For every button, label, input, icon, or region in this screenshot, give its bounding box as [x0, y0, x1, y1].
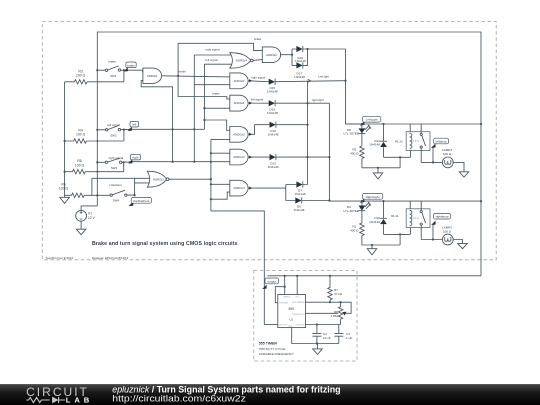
- junction dots left block: [361, 123, 482, 169]
- ground (left LED branch): [373, 168, 383, 179]
- svg-text:1 MΩ: 1 MΩ: [330, 314, 338, 318]
- svg-text:1N4148: 1N4148: [295, 192, 306, 196]
- wire: ANDGx2 out row through D13: [249, 156, 330, 158]
- svg-text:SW3: SW3: [111, 166, 118, 170]
- svg-text:DISCHARGE: DISCHARGE: [292, 301, 305, 304]
- svg-text:R3: R3: [78, 69, 82, 73]
- wire: NORGt3 input loop and feed: [92, 178, 149, 183]
- svg-text:left signal: left signal: [206, 58, 219, 62]
- flag arrow: Left light: [308, 79, 311, 82]
- svg-text:%50 DUTY CYCLE: %50 DUTY CYCLE: [259, 347, 286, 351]
- AND gate ANDGt4: [230, 95, 248, 111]
- svg-text:LAB: LAB: [66, 396, 90, 405]
- svg-text:left signal: left signal: [251, 97, 264, 101]
- resistor R3: [65, 69, 124, 84]
- svg-text:NORGt4: NORGt4: [236, 59, 247, 63]
- NOR gate NORGt3: [147, 171, 169, 187]
- svg-text:rightlamp: rightlamp: [436, 215, 449, 219]
- ground (555): [313, 344, 323, 355]
- resistor R1 400: [350, 223, 364, 245]
- wire: 12V rail into timer: [268, 275, 482, 277]
- svg-text:400 Ω: 400 Ω: [350, 228, 359, 232]
- svg-text:GND: GND: [288, 326, 293, 328]
- wire: chip top feeds RESET and VCC: [285, 276, 298, 295]
- wire: left-light collector bus x345.5: [346, 49, 362, 124]
- dashed box 555: [254, 270, 357, 361]
- flag: right: [128, 154, 140, 163]
- AND gate ANDGt2: [262, 47, 280, 63]
- svg-text:RightLight: RightLight: [366, 195, 380, 199]
- svg-text:OUTPUT: OUTPUT: [279, 324, 288, 326]
- flag: RightLight: [360, 193, 383, 202]
- svg-text:Brake and turn signal system u: Brake and turn signal system using CMOS …: [92, 241, 238, 247]
- wire: NORGt4 output to ANDGt2 in2: [253, 59, 262, 62]
- potentiometer R9 1M: [330, 302, 346, 324]
- svg-text:Left light: Left light: [318, 75, 329, 79]
- svg-text:1N4148: 1N4148: [267, 90, 278, 94]
- relay RL12: [395, 124, 430, 162]
- ground (LAMP3): [459, 172, 469, 177]
- wire: trigger loop: [275, 287, 284, 303]
- svg-text:right signal: right signal: [251, 75, 265, 79]
- voltage source V1 12V: [76, 206, 98, 229]
- wire: ANDGx3 in1: [211, 183, 230, 185]
- svg-text:VCC: VCC: [295, 296, 300, 298]
- wire: ANDGt4 in2 from left bus: [204, 107, 229, 109]
- wire: threshold row: [306, 312, 339, 314]
- svg-text:brake: brake: [212, 92, 220, 96]
- diode D6: [293, 197, 304, 212]
- wire: discharge row + wiper loop: [306, 302, 352, 313]
- diode D15: [267, 79, 278, 94]
- svg-text:Designer: EPluznick 8/13/13: Designer: EPluznick 8/13/13: [92, 256, 129, 260]
- svg-text:U1: U1: [289, 318, 293, 322]
- wire: ANDGt3 out row through D15 (Left light): [249, 81, 346, 82]
- wire: ANDGt1 output row to ANDGt3 in1: [162, 76, 230, 77]
- svg-text:TRIGGER: TRIGGER: [279, 303, 289, 305]
- wire: brake bus (ANDGt1 output net): [178, 43, 230, 99]
- svg-text:1N4148: 1N4148: [369, 143, 380, 147]
- capacitor C1 1uF: [334, 325, 352, 344]
- svg-text:right signal: right signal: [206, 48, 220, 52]
- svg-text:NORGt3: NORGt3: [153, 177, 164, 181]
- diode D19: [267, 100, 278, 115]
- capacitor C2 10nF: [312, 325, 331, 344]
- AND gate ANDGx2: [230, 149, 248, 165]
- junction dots right-middle: [291, 48, 347, 202]
- switch SW4 (x flashers): [109, 183, 135, 203]
- diode D7: [295, 181, 306, 196]
- wire: right block bottom rails: [362, 228, 411, 246]
- svg-text:SW2: SW2: [110, 133, 117, 137]
- resistor R6: [59, 178, 110, 197]
- svg-text:R6: R6: [61, 182, 65, 186]
- LED D9 LTL-307EE: [343, 201, 371, 223]
- svg-text:VARIABLE FREQUENCY: VARIABLE FREQUENCY: [259, 352, 294, 356]
- svg-text:100 Ω: 100 Ω: [76, 133, 86, 137]
- flag: theFlashers: [129, 197, 152, 206]
- NOR gate NORGt4: [230, 53, 253, 69]
- wire: left-signal bus x204.4: [203, 64, 205, 129]
- flag: brake: [124, 62, 137, 72]
- svg-text:ANDGx2: ANDGx2: [233, 132, 245, 136]
- svg-text:RL11: RL11: [391, 214, 398, 218]
- svg-text:right light: right light: [312, 98, 324, 102]
- svg-text:brake: brake: [127, 63, 135, 67]
- svg-text:brake: brake: [254, 37, 262, 41]
- svg-text:400 Ω: 400 Ω: [350, 151, 359, 155]
- svg-text:CONTROL: CONTROL: [294, 324, 305, 326]
- wire: ANDGt4 out row through D19 (right light): [249, 102, 330, 104]
- svg-text:ANDGt4: ANDGt4: [234, 101, 245, 105]
- wire: ANDGx1 in2: [211, 138, 230, 140]
- svg-text:x flashers: x flashers: [109, 183, 122, 187]
- svg-text:1N4148: 1N4148: [267, 111, 278, 115]
- wire: ANDGx3 out split to D7/D6: [249, 185, 330, 201]
- svg-text:100 Ω: 100 Ω: [76, 74, 86, 78]
- diode D13: [268, 154, 279, 169]
- wire: ANDGx2 in1: [211, 152, 230, 154]
- wire: ANDGt1 in2 loop to bus x172.6: [141, 81, 172, 162]
- wire: NORGt4 in1: [194, 54, 231, 56]
- svg-text:ANDGt2: ANDGt2: [266, 53, 277, 57]
- svg-text:RL12: RL12: [395, 139, 403, 143]
- svg-text:THRESHOLD: THRESHOLD: [292, 314, 305, 316]
- outer dashed schematic border: [42, 22, 496, 260]
- diode D17: [294, 62, 305, 79]
- diode D14: [369, 124, 387, 157]
- wire: ANDGx1 in1 jog from left bus: [204, 120, 229, 131]
- diode row helpers: ANDGt2 output split: [280, 49, 345, 65]
- svg-text:555: 555: [289, 307, 295, 311]
- svg-text:brake: brake: [179, 69, 187, 73]
- svg-text:SW1: SW1: [110, 74, 117, 78]
- wire: bottom gnd rail 555: [292, 328, 339, 344]
- switch SW2 (left signal): [97, 123, 204, 141]
- flag: output: [262, 278, 278, 289]
- diode D16: [295, 46, 306, 63]
- svg-text:SW4: SW4: [113, 199, 120, 203]
- resistor R7 47k: [328, 276, 343, 302]
- wire: 12V feed row left block: [346, 123, 482, 125]
- diode D10: [369, 201, 387, 234]
- svg-text:left signal: left signal: [107, 123, 120, 127]
- svg-text:1N4148: 1N4148: [294, 75, 305, 79]
- svg-text:1N4148: 1N4148: [268, 133, 279, 137]
- wire: ANDGt3 in2: [194, 84, 230, 86]
- svg-text:R5: R5: [77, 159, 81, 163]
- switch SW3 (right signal): [97, 156, 230, 172]
- svg-text:100 Ω: 100 Ω: [59, 187, 69, 191]
- svg-text:1N4148: 1N4148: [369, 220, 380, 224]
- wire: right-light collector bus x329.4: [329, 103, 362, 201]
- junction dots right block: [361, 200, 482, 246]
- svg-text:Sumthin from E:2013: Sumthin from E:2013: [46, 256, 74, 260]
- 555 chip U1: [278, 295, 306, 329]
- junction dots 555: [284, 275, 342, 345]
- wire: brake-light bus x307.5: [307, 81, 309, 185]
- wire: right-signal bus x194.3: [193, 55, 195, 162]
- svg-text:theFlashers: theFlashers: [133, 199, 150, 203]
- switch SW1 (brake): [97, 60, 142, 82]
- svg-text:100 Ω: 100 Ω: [443, 152, 452, 156]
- resistor R2 400: [350, 146, 364, 168]
- flag: rightlamp: [431, 213, 451, 239]
- svg-text:http://circuitlab.com/c6xuw2z: http://circuitlab.com/c6xuw2z: [112, 393, 246, 403]
- lamp LAMP3: [421, 148, 464, 172]
- svg-text:ANDGx2: ANDGx2: [233, 155, 245, 159]
- AND gate ANDGx3: [230, 180, 248, 196]
- resistor R4: [65, 128, 124, 143]
- svg-text:100 Ω: 100 Ω: [443, 229, 452, 233]
- flag: leftlamp: [431, 138, 449, 162]
- svg-text:V1: V1: [88, 211, 92, 215]
- wire: ANDGx3 in2 loop: [211, 192, 230, 199]
- svg-text:555 TIMER: 555 TIMER: [259, 342, 278, 346]
- svg-text:ANDGx3: ANDGx3: [233, 186, 245, 190]
- svg-text:LeftLight: LeftLight: [366, 118, 378, 122]
- ground (left rail): [60, 197, 70, 203]
- wire: top detour brake to ANDGt2 in1: [178, 43, 262, 50]
- svg-text:47 kΩ: 47 kΩ: [334, 292, 343, 296]
- wire: clock bus to 555 output flag: [211, 211, 264, 325]
- wire: clock bus x210.9: [210, 139, 212, 211]
- flag: LeftLight: [360, 116, 381, 125]
- ground (below V1): [76, 229, 86, 235]
- diode D12: [268, 122, 279, 137]
- svg-text:LTL-307EE: LTL-307EE: [343, 132, 358, 136]
- svg-text:leftlamp: leftlamp: [436, 140, 447, 144]
- ground (LAMP1): [458, 243, 468, 248]
- svg-text:right signal: right signal: [109, 156, 124, 160]
- svg-text:100 Ω: 100 Ω: [75, 163, 85, 167]
- wire: ANDGt1 in1 from SW1: [142, 70, 144, 72]
- svg-text:ANDGt3: ANDGt3: [234, 79, 245, 83]
- junction dots middle: [64, 69, 212, 200]
- svg-text:right: right: [132, 156, 138, 160]
- svg-text:LTL-307EE: LTL-307EE: [343, 209, 358, 213]
- wire: output pin feed: [264, 324, 278, 326]
- wire: left block bottom rails: [362, 150, 411, 167]
- wire: +12V power rail loop (top, left, right sides): [97, 32, 481, 276]
- wire: control row: [306, 324, 341, 326]
- svg-text:1N4148: 1N4148: [268, 165, 279, 169]
- lamp LAMP1: [421, 225, 462, 245]
- svg-text:left: left: [132, 123, 136, 127]
- AND gate ANDGx1: [230, 127, 248, 143]
- AND gate ANDGt3: [230, 73, 248, 89]
- LED D8 LTL-307EE: [343, 124, 371, 146]
- svg-text:1 µF: 1 µF: [346, 336, 352, 340]
- wire: ANDGx1 out up-leg through D12: [249, 125, 308, 135]
- svg-text:output: output: [267, 279, 276, 283]
- wire: NORGt4 in2: [204, 63, 231, 65]
- wire: NORGt3 output to clock bus: [169, 178, 211, 180]
- svg-text:ANDGt1: ANDGt1: [147, 74, 158, 78]
- svg-text:10 nF: 10 nF: [323, 336, 331, 340]
- AND gate ANDGt1: [143, 68, 162, 83]
- wire: ground rail on far left: [64, 82, 66, 198]
- svg-text:12 V: 12 V: [88, 216, 96, 220]
- resistor R5: [65, 159, 124, 174]
- flag: left: [128, 121, 139, 131]
- svg-text:brake: brake: [108, 60, 116, 64]
- relay RL11: [391, 201, 430, 239]
- svg-text:1N4148: 1N4148: [293, 208, 304, 212]
- svg-text:R4: R4: [78, 128, 82, 132]
- wire: 12V feed row right block: [362, 200, 481, 202]
- svg-text:RESET: RESET: [283, 296, 291, 298]
- ground (right LED branch): [367, 245, 377, 255]
